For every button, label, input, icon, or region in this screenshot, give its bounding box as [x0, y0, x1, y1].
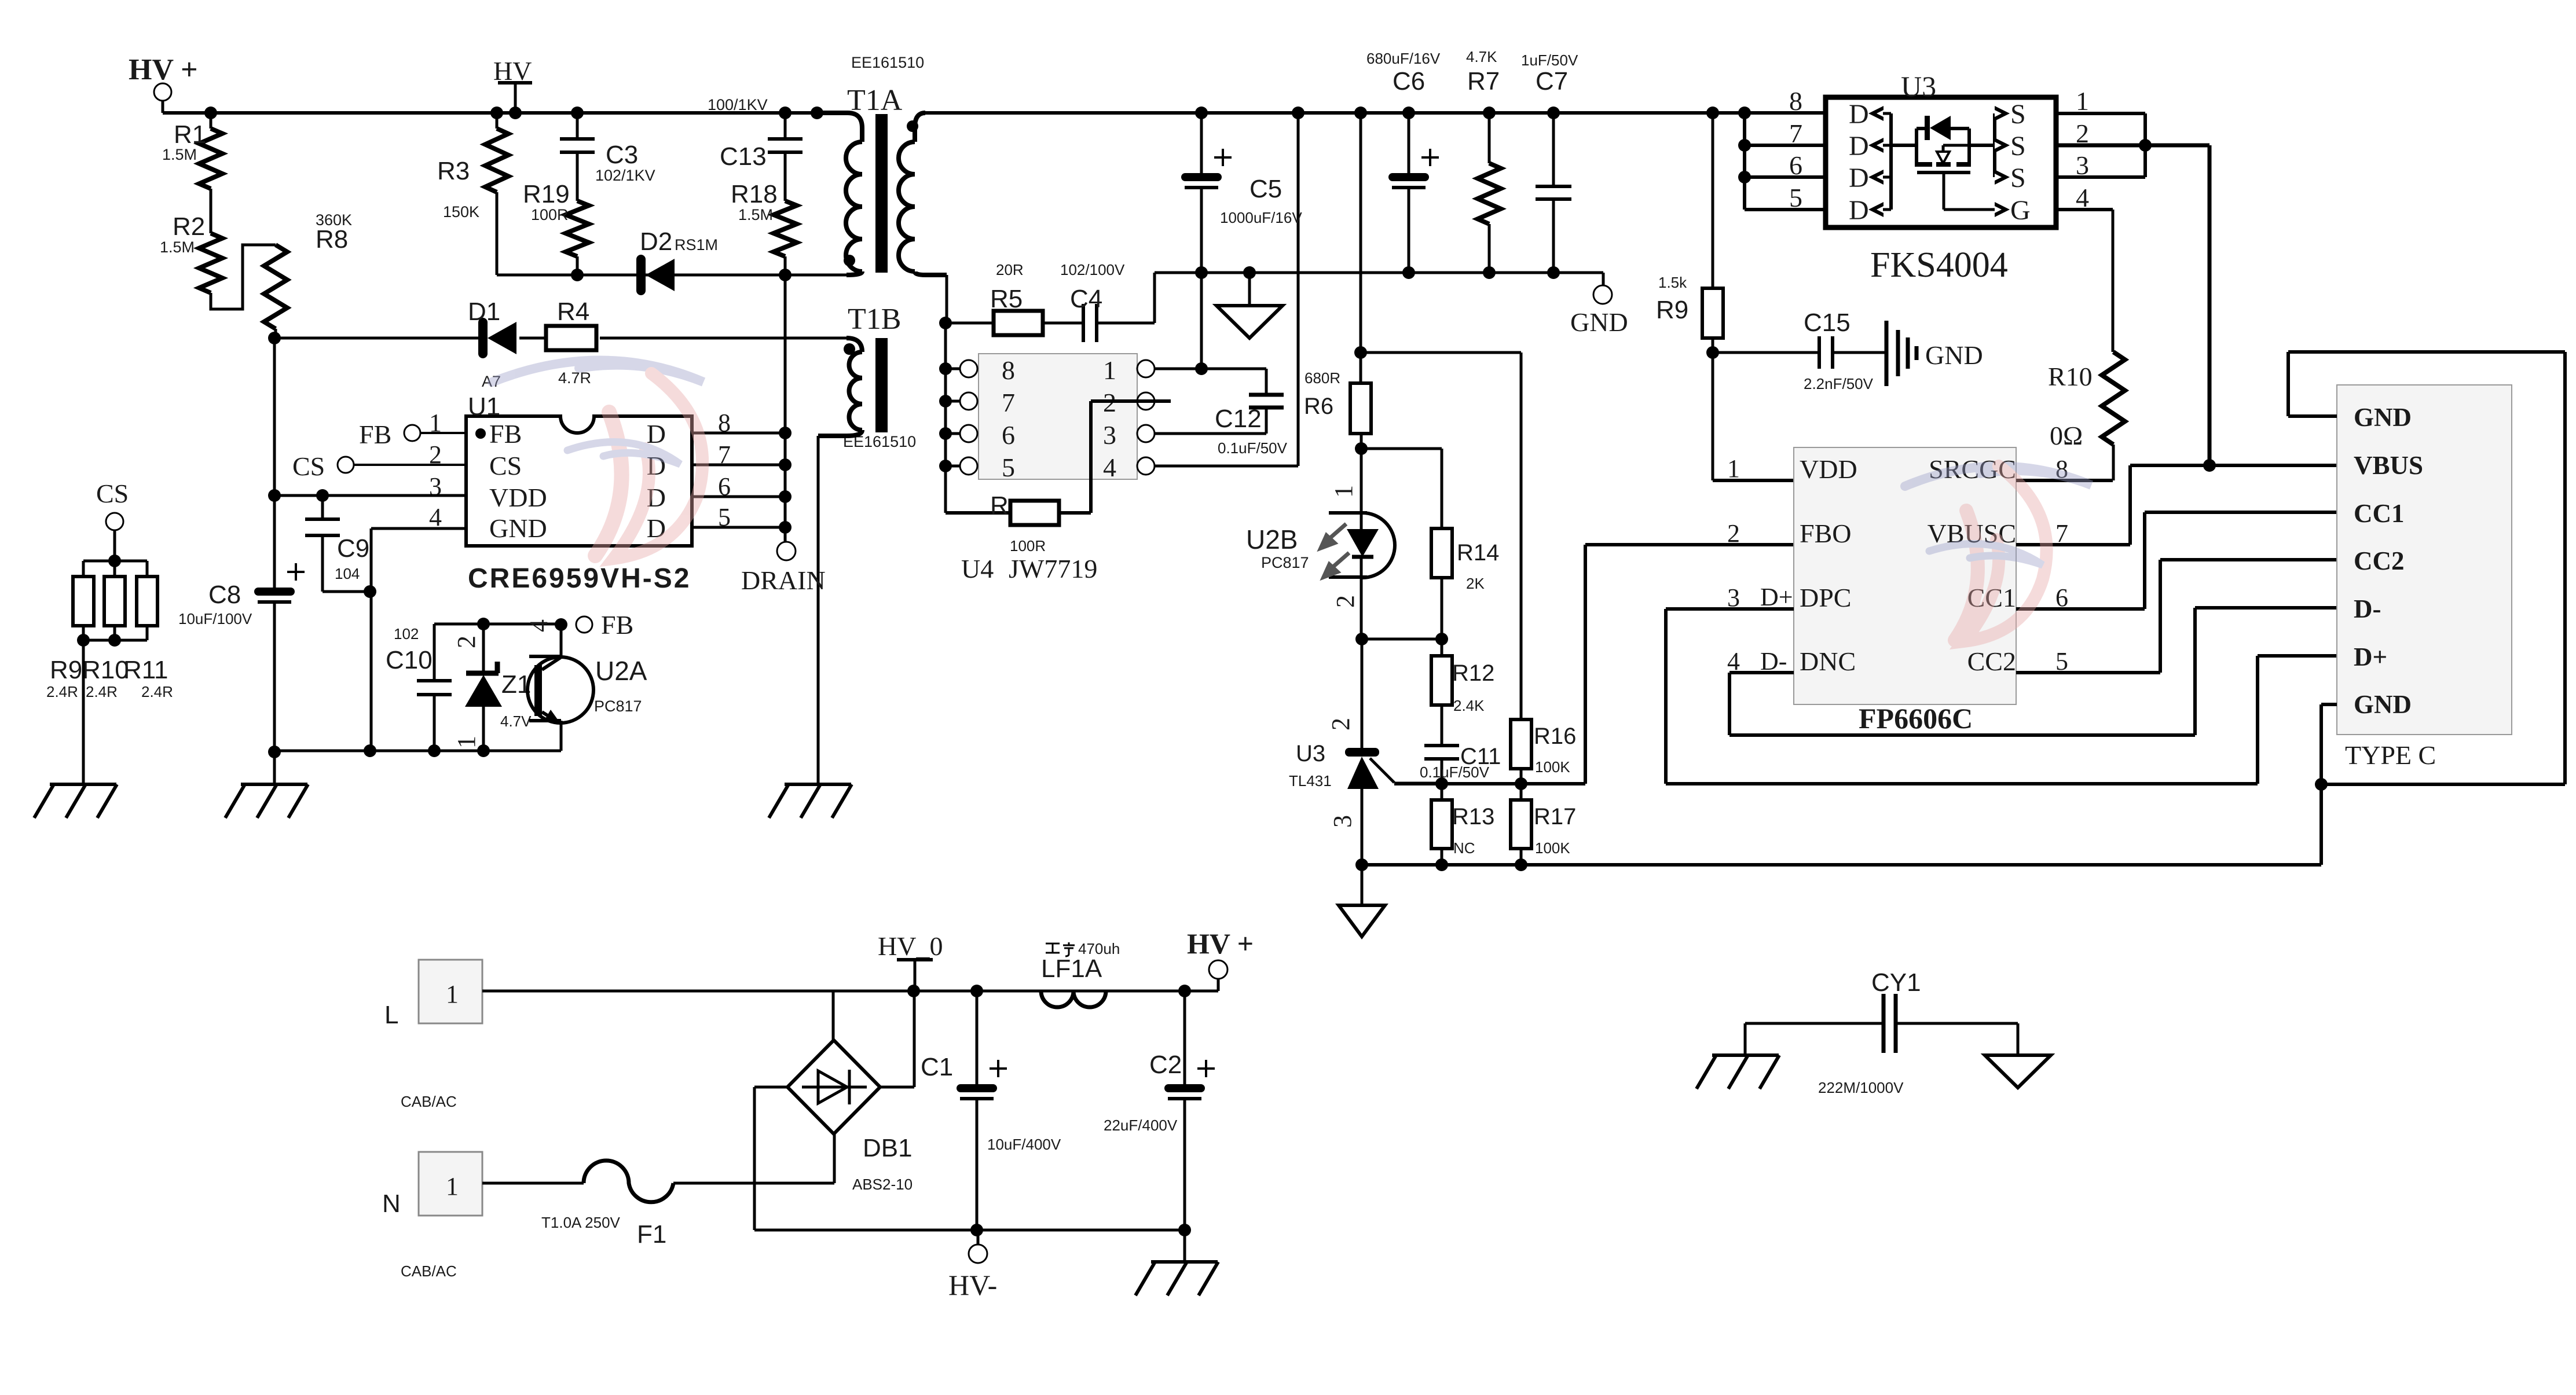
capacitor C15 [1713, 309, 1874, 392]
svg-text:R9: R9 [1656, 296, 1688, 324]
pin D4 fks [1849, 195, 1891, 226]
wire C13 column down [784, 275, 787, 543]
mosfet body diode loop [1917, 129, 1969, 167]
capacitor C9 [305, 495, 370, 592]
svg-text:C4: C4 [1070, 285, 1102, 313]
wire CC1 route [2016, 512, 2337, 609]
pin1 number [1727, 454, 1740, 483]
svg-text:S: S [2010, 99, 2026, 130]
capacitor C10 [386, 624, 452, 751]
svg-text:ABS2-10: ABS2-10 [852, 1176, 913, 1193]
svg-text:2.4K: 2.4K [1453, 697, 1485, 714]
diode D1 [468, 298, 516, 390]
wire R6-R14 [1361, 434, 1442, 528]
svg-text:3: 3 [1328, 815, 1357, 828]
pin number 7 fks [1789, 119, 1802, 148]
node S join [2139, 139, 2152, 152]
connector N [382, 1152, 482, 1280]
svg-text:4: 4 [1103, 453, 1116, 482]
wire T1A sec top rail [921, 111, 1826, 115]
svg-text:1: 1 [452, 736, 481, 748]
node LED-R14 a [1355, 633, 1368, 645]
svg-text:6: 6 [1002, 420, 1015, 450]
svg-text:GND: GND [1925, 340, 1983, 370]
pin CC2 [1967, 647, 2016, 676]
wire R2-R8 step [211, 245, 276, 309]
label D- pin4 [1760, 647, 1787, 676]
ground primary C8 [225, 752, 308, 818]
svg-text:CS: CS [96, 479, 129, 508]
svg-text:1: 1 [1727, 454, 1740, 483]
node gnd2 [1435, 858, 1448, 871]
svg-text:1uF/50V: 1uF/50V [1521, 52, 1578, 69]
node FBO a [1435, 777, 1448, 790]
pin numbers U4 right [1103, 355, 1116, 482]
wire gnd loop [2288, 352, 2565, 784]
connector L [384, 960, 482, 1110]
mosfet body diode [1925, 116, 1951, 140]
resistor R10 sense [82, 577, 129, 700]
svg-text:150K: 150K [443, 203, 479, 221]
label CRE6959VH-S2 [468, 563, 691, 594]
svg-text:1: 1 [2076, 86, 2089, 116]
pin number 6 fks [1789, 150, 1802, 180]
svg-text:GND: GND [1570, 307, 1628, 337]
wire trio bottom bracket [83, 626, 147, 640]
capacitor C1 [921, 991, 1061, 1230]
node R5 junction [939, 317, 952, 329]
pin2 number [1727, 519, 1740, 548]
node trio1 [77, 634, 90, 647]
wire trio to gnd [82, 640, 85, 784]
svg-text:1: 1 [1329, 485, 1358, 498]
svg-text:R11: R11 [123, 656, 168, 684]
svg-text:D: D [1849, 131, 1869, 161]
svg-text:C8: C8 [208, 581, 241, 609]
svg-text:2.4R: 2.4R [86, 683, 118, 700]
node U4p5 [939, 460, 952, 472]
wire T1B to primary gnd [817, 436, 820, 784]
svg-text:6: 6 [1789, 150, 1802, 180]
pin CC1 [1967, 583, 2016, 612]
wire bridge minus [754, 1087, 1185, 1230]
svg-text:CAB/AC: CAB/AC [401, 1093, 457, 1110]
capacitor C5 [1181, 113, 1302, 273]
node Z1 top [477, 618, 490, 630]
svg-text:DB1: DB1 [863, 1134, 913, 1162]
svg-text:U3: U3 [1296, 741, 1325, 766]
wire fks G pin [2056, 210, 2113, 352]
node C2 bottom [1178, 1224, 1191, 1236]
svg-text:R5: R5 [990, 285, 1023, 313]
capacitor C6 [1366, 50, 1441, 273]
pin2 label U1 [429, 440, 442, 469]
pin2 TL431 rotated [1327, 718, 1355, 730]
wire fks S pins [2056, 113, 2209, 177]
pin4 label U1 [429, 503, 442, 531]
capacitor C13 [708, 96, 803, 201]
svg-text:222M/1000V: 222M/1000V [1818, 1079, 1904, 1096]
node trio2 [108, 634, 121, 647]
svg-text:100K: 100K [1535, 758, 1570, 776]
node C8 bottom [268, 746, 281, 758]
wire trio top bracket [83, 561, 147, 577]
wire R16 feed [1361, 351, 1521, 354]
wire U1 D pins [692, 433, 785, 527]
label U1 [468, 392, 500, 421]
IC U4 box [979, 354, 1137, 479]
wire L to bridge [832, 991, 835, 1040]
resistor R14 [1431, 528, 1499, 592]
capacitor C2 [1104, 991, 1215, 1230]
svg-text:0.1uF/50V: 0.1uF/50V [1420, 763, 1490, 781]
wire T1A sec bottom drop [946, 275, 948, 323]
capacitor C12 [1155, 369, 1288, 457]
svg-text:NC: NC [1453, 839, 1475, 857]
pin D- tc [2354, 594, 2381, 623]
label T1A [847, 54, 924, 117]
ground CS trio [34, 784, 117, 818]
pin5 number r [2055, 647, 2068, 676]
phasing dot T1A secondary [907, 120, 918, 132]
wire secondary gnd line [1155, 271, 1603, 274]
svg-text:680uF/16V: 680uF/16V [1366, 50, 1441, 67]
svg-text:GND: GND [2354, 690, 2412, 719]
svg-text:1.5M: 1.5M [160, 238, 195, 256]
svg-text:4.7R: 4.7R [558, 369, 591, 387]
svg-text:CC1: CC1 [2354, 499, 2405, 528]
svg-text:EE161510: EE161510 [851, 54, 924, 71]
label U2A [594, 656, 647, 715]
capacitor C11 [1420, 705, 1501, 784]
label U3 fks [1901, 70, 1936, 102]
svg-text:7: 7 [1002, 388, 1015, 417]
svg-text:10uF/100V: 10uF/100V [178, 610, 252, 627]
transformer T1B winding [818, 338, 862, 436]
phasing dot T1B [844, 343, 855, 355]
wire D1-R4 [519, 337, 547, 340]
svg-text:FB: FB [601, 610, 633, 640]
node rail-R3 [490, 107, 503, 119]
pin circles U4 left [960, 360, 977, 475]
svg-text:T1.0A 250V: T1.0A 250V [541, 1214, 621, 1231]
svg-text:102/100V: 102/100V [1060, 261, 1125, 278]
node gnd arrow [1243, 266, 1256, 279]
wire D to mosfet [1891, 144, 1917, 147]
pin DNC [1800, 647, 1856, 676]
wire VBUSC [2016, 465, 2130, 545]
node U4p6 [939, 427, 952, 440]
resistor R8 [264, 211, 352, 338]
svg-text:TL431: TL431 [1289, 772, 1332, 790]
watermark FP6606C [1905, 466, 2091, 641]
svg-text:PC817: PC817 [1261, 554, 1309, 571]
wire N to bridge [833, 1133, 836, 1183]
wire mosfet to S [1969, 144, 1995, 147]
wire DNC D- route [1729, 608, 2337, 735]
svg-text:RS1M: RS1M [675, 236, 718, 254]
svg-text:102: 102 [394, 625, 419, 643]
label U2B [1246, 524, 1309, 571]
pin numbers U4 left [1002, 355, 1015, 482]
light arrows U2B [1321, 524, 1349, 577]
svg-text:U2B: U2B [1246, 524, 1298, 555]
pin number 1 fks [2076, 86, 2089, 116]
node R6 bottom [1355, 442, 1368, 455]
node rail fks [1738, 107, 1751, 119]
terminal HV_0 [878, 931, 943, 991]
pin2 U2B rotated [1331, 595, 1360, 608]
terminal HV- [948, 1231, 997, 1301]
svg-text:R: R [990, 491, 1009, 520]
pin CC2 tc [2354, 546, 2405, 575]
node LED-R14 b [1435, 633, 1448, 645]
wire DPC D+ route [1666, 609, 2337, 784]
resistor R U4 [946, 491, 1059, 555]
svg-text:C7: C7 [1536, 67, 1568, 96]
node gnd loop [2315, 778, 2328, 791]
node fks6 [1738, 171, 1751, 183]
svg-text:R19: R19 [523, 180, 570, 208]
svg-text:HV-: HV- [948, 1269, 997, 1301]
svg-text:680R: 680R [1305, 369, 1340, 387]
svg-text:2: 2 [1331, 595, 1360, 608]
svg-text:U4: U4 [961, 554, 994, 583]
pin S3 fks [1995, 163, 2026, 193]
wire L line [482, 990, 1185, 993]
svg-text:D2: D2 [640, 227, 672, 256]
watermark U1 [492, 361, 703, 559]
fuse F1 [482, 1161, 834, 1249]
svg-text:2K: 2K [1466, 575, 1485, 592]
node HV0 [907, 985, 920, 997]
pin VBUSC [1928, 519, 2016, 548]
node C10 bottom [428, 744, 441, 757]
pin CC1 tc [2354, 499, 2405, 528]
label DB1 [852, 1134, 913, 1193]
svg-text:8: 8 [1002, 355, 1015, 385]
svg-text:100K: 100K [1535, 839, 1570, 857]
label T1B [843, 303, 916, 450]
svg-text:VBUS: VBUS [2354, 451, 2423, 480]
node pin4 bottom [364, 744, 376, 757]
svg-text:LF1A: LF1A [1041, 955, 1102, 983]
svg-text:C2: C2 [1149, 1051, 1182, 1079]
ground CY1 left [1696, 1023, 1779, 1089]
svg-text:VDD: VDD [1800, 454, 1857, 484]
node C8 [268, 489, 281, 502]
pin8 number r [2055, 455, 2068, 483]
svg-text:DRAIN: DRAIN [741, 566, 826, 595]
node D7 [779, 458, 792, 471]
wire top primary rail [163, 111, 847, 115]
wire VBUS [2130, 464, 2337, 467]
svg-text:C6: C6 [1393, 67, 1425, 96]
pin number 3 fks [2076, 150, 2089, 180]
wire D bracket internal [1889, 113, 1893, 210]
label FP6606C [1859, 702, 1973, 735]
IC U3 FKS4004 box [1826, 97, 2056, 227]
pin2 Z1 rotated [452, 636, 481, 648]
svg-text:2: 2 [429, 440, 442, 469]
terminal FB U1 [359, 420, 466, 449]
svg-text:GND: GND [2354, 403, 2412, 432]
svg-text:R10: R10 [82, 656, 129, 684]
shunt U3 TL431 [1345, 639, 1442, 865]
svg-text:D+: D+ [2354, 643, 2387, 671]
node C7 gnd [1547, 266, 1560, 279]
node rail-C3 [571, 107, 584, 119]
resistor R12 [1431, 639, 1494, 714]
svg-text:DNC: DNC [1800, 647, 1856, 676]
mosfet gate wire [1944, 172, 1995, 210]
node Z1 bottom [477, 744, 490, 757]
svg-text:R10: R10 [2048, 362, 2093, 391]
pin3 number [1727, 583, 1740, 612]
svg-text:U3: U3 [1901, 70, 1936, 102]
terminal HV+ [129, 53, 198, 113]
resistor R6 [1304, 353, 1371, 434]
label FKS4004 [1870, 245, 2008, 285]
wire S bracket [1993, 113, 1996, 177]
svg-text:C12: C12 [1215, 405, 1262, 433]
svg-text:C13: C13 [720, 142, 767, 171]
pin1 U2B rotated [1329, 485, 1358, 498]
resistor R17 [1511, 784, 1576, 865]
svg-text:100R: 100R [531, 206, 569, 223]
svg-text:C10: C10 [386, 646, 433, 674]
wire D2 line [497, 274, 847, 277]
svg-text:D+: D+ [1760, 583, 1793, 611]
svg-text:HV_0: HV_0 [878, 931, 943, 961]
svg-text:1: 1 [1103, 355, 1116, 385]
node rail-R1 [204, 107, 217, 119]
node rail-HV [509, 107, 522, 119]
mosfet body arrow [1937, 145, 1969, 163]
node C6 gnd [1402, 266, 1415, 279]
svg-text:CY1: CY1 [1871, 968, 1921, 997]
node gnd1 [1355, 858, 1368, 871]
chassis gnd C15 [1833, 321, 1983, 386]
pin VBUS [2354, 451, 2423, 480]
svg-text:FB: FB [359, 420, 391, 449]
pin number 8 fks [1789, 86, 1802, 116]
svg-text:5: 5 [1002, 453, 1015, 482]
transformer T1A primary winding [817, 113, 862, 275]
wire U4 pin1 [1155, 368, 1266, 370]
svg-text:FKS4004: FKS4004 [1870, 245, 2008, 285]
resistor R1 [162, 113, 222, 233]
gnd triangle CY1 [1985, 1023, 2051, 1088]
pin SRCGC [1929, 454, 2016, 484]
wire U4 column [944, 323, 947, 513]
wire bridge plus up [880, 991, 914, 1087]
node R8-D1 [268, 332, 281, 344]
pin5 label U1 [718, 503, 731, 531]
node rail C5 [1195, 107, 1208, 119]
wire FBO line [1394, 545, 1794, 784]
pin circles U4 right [1137, 360, 1155, 475]
svg-text:1.5M: 1.5M [738, 206, 773, 223]
wire SRCGC [2016, 479, 2113, 482]
wire C4 riser [1153, 273, 1156, 323]
node C1 bottom [970, 1224, 983, 1236]
svg-text:8: 8 [1789, 86, 1802, 116]
pin D2 fks [1849, 131, 1891, 161]
svg-text:R8: R8 [316, 225, 348, 254]
node C1 top [970, 985, 983, 997]
transformer T1A secondary winding [899, 113, 947, 275]
phasing dot T1A primary [844, 255, 855, 266]
node rail C6 [1402, 107, 1415, 119]
wire fks pin8 [1745, 111, 1826, 115]
svg-text:R17: R17 [1534, 804, 1576, 829]
node gnd3 [1515, 858, 1527, 871]
svg-text:3: 3 [1103, 420, 1116, 450]
pin GND bottom [2354, 690, 2412, 719]
svg-text:C5: C5 [1249, 175, 1282, 203]
svg-text:R4: R4 [557, 298, 589, 326]
inductor LF1A [1041, 940, 1120, 1007]
pin1 Z1 rotated [452, 736, 481, 748]
svg-text:4.7V: 4.7V [500, 713, 532, 730]
svg-text:JW7719: JW7719 [1009, 554, 1097, 583]
node rail R7 [1483, 107, 1496, 119]
resistor R19 [523, 180, 589, 275]
ground C2 [1135, 1230, 1218, 1295]
svg-text:1: 1 [429, 409, 442, 437]
svg-text:2.2nF/50V: 2.2nF/50V [1804, 375, 1874, 392]
svg-text:1: 1 [446, 1172, 459, 1201]
svg-text:HV +: HV + [1187, 927, 1254, 960]
pin GND top [2354, 403, 2412, 432]
resistor R2 [160, 212, 222, 293]
pin VDD [1800, 454, 1857, 484]
wire R to pin2 [1059, 401, 1171, 513]
svg-text:D: D [1849, 99, 1869, 130]
svg-text:102/1KV: 102/1KV [595, 167, 655, 184]
pin1 label U1 [429, 409, 442, 437]
wire R4-T1B [600, 337, 847, 340]
svg-text:2.4R: 2.4R [141, 683, 173, 700]
terminal DRAIN [741, 542, 826, 595]
svg-text:1.5M: 1.5M [162, 146, 197, 163]
node C2 top [1178, 985, 1191, 997]
optocoupler U2B LED [1329, 449, 1395, 639]
node FBO b [1515, 777, 1527, 790]
node R18-D2line [779, 269, 792, 281]
svg-text:R6: R6 [1304, 394, 1333, 419]
node D5 [779, 521, 792, 534]
pin7 number r [2055, 519, 2068, 548]
gnd triangle TL431 [1339, 865, 1385, 937]
svg-text:R16: R16 [1534, 724, 1576, 749]
resistor R4 [546, 298, 596, 387]
svg-text:20R: 20R [996, 261, 1024, 278]
svg-text:CS: CS [489, 451, 522, 480]
node U4p8 [939, 362, 952, 375]
wire R9-VDD [1713, 353, 1794, 480]
svg-text:4.7K: 4.7K [1466, 48, 1497, 65]
connector TYPE C box [2337, 385, 2512, 735]
svg-text:R14: R14 [1457, 540, 1499, 566]
IC FP6606C box [1794, 447, 2016, 704]
diode D2 [636, 227, 718, 295]
node C9 [316, 489, 329, 502]
resistor R18 [731, 180, 797, 275]
bridge DB1 [787, 1040, 880, 1134]
node rail-C13 [779, 107, 792, 119]
